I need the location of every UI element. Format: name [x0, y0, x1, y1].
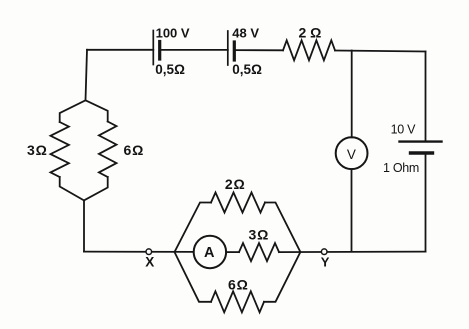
wire right branch bottom diagonal: [84, 177, 108, 200]
svg-text:0,5Ω: 0,5Ω: [155, 62, 185, 77]
wire battery B2 to resistor 2ohm: [234, 49, 283, 51]
svg-text:V: V: [347, 147, 356, 162]
wire ammeter to resistor 3ohm: [226, 251, 239, 253]
wire voltmeter branch lower: [351, 169, 353, 252]
node Y circle: [321, 249, 327, 255]
svg-text:3Ω: 3Ω: [27, 142, 48, 158]
voltmeter V1 circle: [336, 137, 368, 169]
wire bottom left to ammeter: [84, 251, 194, 253]
resistor 6ohm branch: [211, 291, 264, 312]
battery B1 short thick plate: [158, 42, 161, 60]
wire voltmeter branch upper: [351, 51, 353, 138]
wire left vertical upper: [86, 50, 88, 101]
resistor 6ohm right: [99, 122, 117, 178]
svg-text:6Ω: 6Ω: [124, 142, 145, 158]
wire left branch bottom diagonal: [60, 177, 84, 200]
battery B2 short thick plate: [233, 42, 236, 60]
resistor 3ohm left: [51, 122, 69, 177]
wire top branch right diagonal: [265, 203, 300, 253]
wire left branch top diagonal: [60, 100, 86, 122]
wire right vertical upper: [425, 52, 427, 142]
svg-text:0,5Ω: 0,5Ω: [232, 62, 262, 77]
wire bottom branch left diagonal: [175, 252, 212, 302]
battery B3 short thick plate: [411, 151, 433, 154]
svg-text:X: X: [145, 255, 154, 270]
wire top branch left diagonal: [175, 203, 212, 253]
svg-text:3Ω: 3Ω: [249, 226, 270, 242]
svg-text:Y: Y: [321, 255, 330, 270]
svg-text:100 V: 100 V: [156, 26, 190, 41]
wire left vertical lower: [83, 200, 85, 251]
wire right vertical lower: [425, 153, 427, 252]
svg-text:10 V: 10 V: [391, 123, 416, 137]
battery B3 long plate: [400, 140, 442, 142]
wire right branch top diagonal: [86, 100, 108, 121]
node X circle: [146, 249, 152, 255]
svg-text:2Ω: 2Ω: [225, 176, 246, 192]
wire top-left horizontal: [87, 49, 153, 51]
wire bottom branch right diagonal: [264, 252, 300, 302]
svg-text:6Ω: 6Ω: [228, 277, 249, 293]
battery B1 long plate: [152, 31, 154, 65]
ammeter A1 circle: [194, 236, 226, 268]
wire resistor 3ohm to right junction and Y: [279, 251, 426, 254]
wire between batteries: [160, 49, 228, 51]
svg-text:48 V: 48 V: [232, 25, 259, 40]
resistor 3ohm middle: [239, 243, 279, 261]
battery B2 long plate: [227, 31, 229, 65]
svg-text:1 Ohm: 1 Ohm: [383, 161, 419, 175]
svg-text:2 Ω: 2 Ω: [299, 24, 322, 40]
resistor 2ohm branch: [211, 193, 265, 213]
wire resistor to top-right corner: [335, 51, 426, 52]
resistor 2ohm top: [283, 40, 335, 60]
svg-text:A: A: [204, 245, 215, 261]
